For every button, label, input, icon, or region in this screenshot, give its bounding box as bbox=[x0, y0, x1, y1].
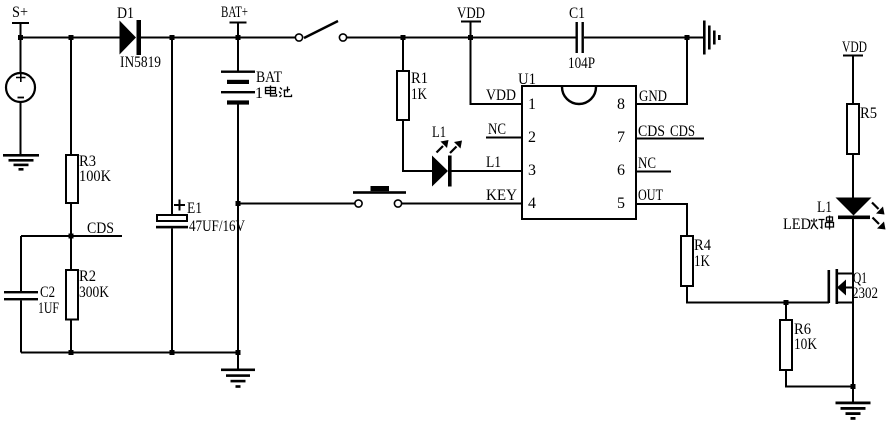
svg-text:LED: LED bbox=[783, 216, 811, 233]
node BAT+ power port bar bbox=[230, 22, 247, 24]
LED L1 (right) arrow 1 bbox=[872, 203, 885, 215]
junction CDS / R3R2 bbox=[69, 234, 74, 239]
ground (bottom middle) bbox=[221, 369, 255, 388]
value 电池 (drawn glyphs) bbox=[266, 86, 292, 98]
svg-text:L1: L1 bbox=[486, 154, 501, 171]
switch S1 right contact bbox=[339, 34, 346, 41]
power port VDD (right) bar bbox=[843, 55, 863, 57]
wire NC stub pin2 bbox=[486, 137, 522, 139]
svg-text:CDS: CDS bbox=[87, 220, 114, 237]
power port VDD (left) bar bbox=[461, 21, 481, 23]
wire E1 to bottom rail bbox=[171, 229, 173, 353]
svg-text:VDD: VDD bbox=[457, 5, 485, 22]
svg-text:NC: NC bbox=[488, 121, 506, 138]
wire LED to Q1 drain bbox=[852, 219, 854, 402]
LED L1 (right) cathode bar bbox=[838, 216, 870, 220]
LED L1 (mid) triangle bbox=[432, 156, 448, 187]
diode D1 cathode bar bbox=[137, 20, 142, 55]
wire R1 to LED anode bbox=[403, 120, 432, 171]
junction battery / KEY row bbox=[236, 201, 241, 206]
wire bottom rail bbox=[21, 352, 238, 354]
wire BAT+ to battery bbox=[237, 23, 239, 72]
wire KEY row from battery to button bbox=[238, 203, 355, 205]
LED L1 (right) triangle bbox=[836, 198, 872, 216]
wire R6 bottom to source node bbox=[786, 370, 853, 387]
wire battery down through KEY junction to bottom rail bbox=[237, 104, 239, 353]
svg-text:D1: D1 bbox=[117, 5, 134, 22]
junction rail / E1 branch bbox=[170, 35, 175, 40]
switch S1 left contact bbox=[295, 34, 302, 41]
junction rail / R1 branch bbox=[401, 35, 406, 40]
LED L1 (mid) arrow 1 bbox=[437, 140, 449, 153]
wire R5 to LED bbox=[852, 154, 854, 198]
svg-text:3: 3 bbox=[528, 162, 536, 179]
svg-text:4: 4 bbox=[528, 195, 536, 212]
label 灯串 (drawn glyphs) bbox=[811, 216, 834, 230]
junction at S+ / rail bbox=[18, 35, 23, 40]
wire top rail: D1 to switch bbox=[141, 37, 296, 39]
pushbutton KEY actuator nub bbox=[371, 186, 390, 191]
ground (left, below source) bbox=[3, 154, 39, 171]
svg-text:E1: E1 bbox=[187, 200, 202, 217]
svg-text:CDS: CDS bbox=[670, 123, 695, 140]
wire top rail: switch to C1 bbox=[347, 37, 576, 39]
wire bottom rail stub to ground bbox=[237, 353, 239, 370]
svg-text:L1: L1 bbox=[817, 199, 832, 216]
resistor R4 body bbox=[681, 236, 693, 286]
svg-text:VDD: VDD bbox=[842, 39, 867, 56]
svg-text:OUT: OUT bbox=[638, 187, 663, 204]
svg-text:1: 1 bbox=[255, 85, 263, 102]
svg-text:8: 8 bbox=[617, 96, 625, 113]
node S+ power port bar bbox=[12, 22, 29, 24]
junction gate row / R6 bbox=[784, 300, 789, 305]
junction E1 / bottom rail bbox=[170, 350, 175, 355]
op-amp U1 IC body bbox=[522, 86, 636, 219]
transistor Q1 channel bar bbox=[836, 269, 839, 304]
LED L1 (right) arrow 2 bbox=[873, 218, 886, 230]
wire pin5 OUT to R4 bbox=[636, 204, 687, 236]
resistor R2 body bbox=[66, 270, 78, 320]
wire C2 bottom lead bbox=[20, 301, 22, 353]
svg-text:1K: 1K bbox=[411, 86, 427, 103]
svg-text:1UF: 1UF bbox=[38, 300, 59, 317]
capacitor C2 top plate bbox=[4, 291, 38, 293]
resistor R6 body bbox=[780, 320, 792, 370]
svg-text:BAT: BAT bbox=[256, 69, 282, 86]
svg-text:R1: R1 bbox=[411, 70, 428, 87]
junction source node / ground bbox=[851, 384, 856, 389]
resistor R1 lead top bbox=[402, 38, 404, 72]
svg-text:VDD: VDD bbox=[486, 87, 516, 104]
transistor Q1 body stub with arrow bbox=[837, 280, 853, 296]
wire R4 to gate row bbox=[687, 286, 829, 303]
junction R2 / bottom rail bbox=[69, 350, 74, 355]
svg-text:L1: L1 bbox=[432, 124, 446, 141]
wire NC stub pin6 bbox=[636, 171, 671, 173]
wire R3 to CDS junction to R2 bbox=[70, 203, 72, 270]
svg-text:S+: S+ bbox=[12, 4, 28, 21]
wire source to ground bbox=[20, 102, 22, 155]
svg-text:R2: R2 bbox=[79, 268, 96, 285]
svg-text:5: 5 bbox=[617, 195, 625, 212]
wire R2 to bottom rail bbox=[70, 320, 72, 353]
wire LED cathode to pin3 bbox=[452, 170, 523, 172]
capacitor E1 lead top bbox=[171, 38, 173, 216]
capacitor C1 right plate bbox=[582, 22, 584, 53]
battery BAT plate 1 (long) bbox=[221, 71, 255, 73]
svg-text:GND: GND bbox=[639, 88, 667, 105]
svg-text:47UF/16V: 47UF/16V bbox=[189, 218, 245, 235]
wire button to pin4 bbox=[402, 203, 522, 205]
svg-text:KEY: KEY bbox=[486, 187, 517, 204]
battery BAT plate 3 (long) bbox=[221, 91, 255, 93]
resistor R1 body bbox=[397, 71, 409, 120]
svg-text:100K: 100K bbox=[79, 168, 111, 185]
wire R3 branch from rail bbox=[70, 38, 72, 156]
junction rail / GND drop bbox=[685, 35, 690, 40]
capacitor E1 + mark bbox=[174, 200, 185, 211]
pushbutton KEY left contact bbox=[355, 200, 362, 207]
svg-text:300K: 300K bbox=[79, 284, 109, 301]
wire pin7 CDS bbox=[636, 138, 704, 140]
resistor R3 body bbox=[66, 155, 78, 203]
svg-text:C2: C2 bbox=[40, 284, 55, 301]
svg-text:CDS: CDS bbox=[638, 123, 665, 140]
svg-text:R5: R5 bbox=[860, 105, 877, 122]
svg-text:IN5819: IN5819 bbox=[120, 54, 161, 71]
transistor Q1 gate bar bbox=[828, 270, 831, 303]
pushbutton KEY right contact bbox=[394, 200, 401, 207]
svg-text:1: 1 bbox=[528, 96, 536, 113]
junction rail / BAT branch bbox=[236, 35, 241, 40]
svg-text:C1: C1 bbox=[569, 5, 585, 22]
capacitor C1 left plate bbox=[576, 22, 578, 53]
svg-text:104P: 104P bbox=[568, 55, 595, 72]
junction rail / VDD drop bbox=[468, 35, 473, 40]
svg-text:10K: 10K bbox=[794, 336, 817, 353]
LED L1 (mid) arrow 2 bbox=[450, 141, 462, 154]
wire top rail: C1 to right ground bbox=[584, 37, 703, 39]
svg-text:R4: R4 bbox=[694, 237, 711, 254]
svg-text:U1: U1 bbox=[518, 71, 536, 88]
junction battery / bottom rail bbox=[236, 350, 241, 355]
capacitor E1 bottom plate bbox=[156, 226, 188, 229]
wire R6 top lead bbox=[785, 303, 787, 321]
wire CDS horizontal bbox=[21, 235, 122, 237]
wire pin8 GND to rail bbox=[636, 38, 687, 105]
junction rail / R3 branch bbox=[69, 35, 74, 40]
battery BAT plate 2 (short thick) bbox=[227, 80, 249, 84]
wire C2 top lead bbox=[20, 236, 22, 292]
capacitor E1 top plate (hollow) bbox=[157, 215, 187, 221]
svg-text:NC: NC bbox=[638, 155, 656, 172]
LED L1 (mid) cathode bar bbox=[448, 156, 452, 187]
voltage source + mark bbox=[16, 72, 26, 83]
voltage source - mark bbox=[18, 97, 25, 99]
svg-text:2302: 2302 bbox=[852, 285, 878, 302]
wire VDD to R5 bbox=[852, 56, 854, 105]
wire S+ vertical into rail bbox=[20, 23, 22, 73]
pushbutton KEY actuator bar bbox=[353, 191, 406, 194]
svg-text:BAT+: BAT+ bbox=[221, 4, 248, 21]
diode D1 triangle bbox=[120, 21, 137, 55]
svg-text:2: 2 bbox=[528, 129, 536, 146]
U1 notch bbox=[562, 87, 596, 104]
resistor R5 body bbox=[847, 104, 859, 154]
svg-text:1K: 1K bbox=[694, 253, 710, 270]
ground (bottom right) bbox=[836, 402, 871, 420]
voltage source (photocell) circle bbox=[6, 73, 35, 102]
svg-text:6: 6 bbox=[617, 162, 625, 179]
transistor Q1 drain stub bbox=[837, 273, 853, 275]
switch S1 lever bbox=[304, 21, 338, 38]
wire VDD to pin1 bbox=[471, 22, 523, 105]
ground (top right, rotated) bbox=[703, 21, 721, 55]
wire top rail: S+ to D1 anode bbox=[21, 37, 120, 39]
svg-text:7: 7 bbox=[617, 129, 625, 146]
capacitor C2 bottom plate bbox=[4, 298, 38, 300]
transistor Q1 source stub bbox=[837, 302, 853, 304]
battery BAT plate 4 (short thick) bbox=[227, 100, 249, 104]
